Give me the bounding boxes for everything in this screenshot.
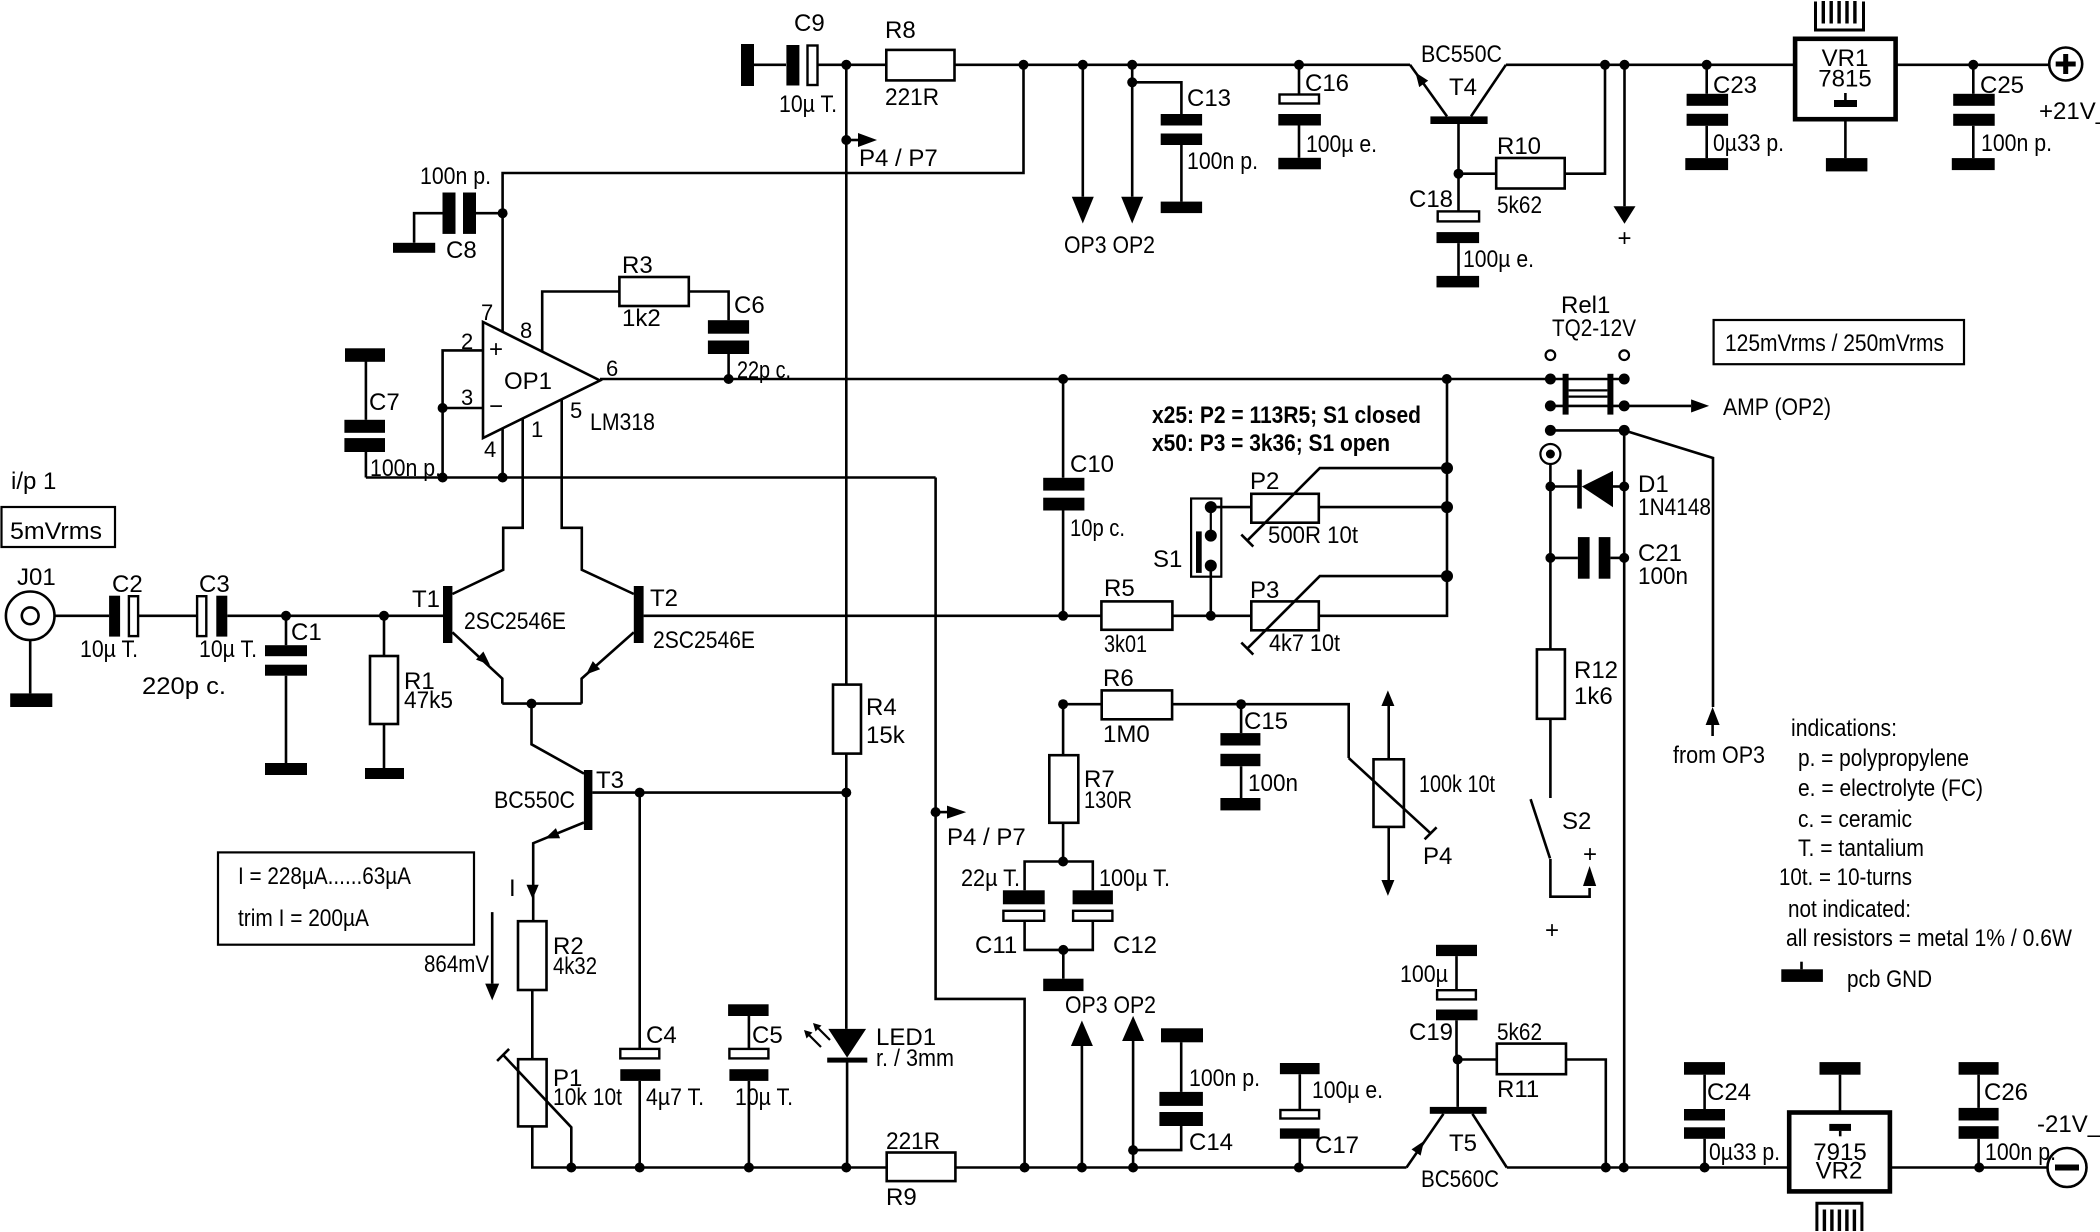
ground (pcb GND) under C8 bbox=[393, 243, 435, 253]
svg-text:T4: T4 bbox=[1449, 74, 1477, 101]
node: LED rail junction bbox=[841, 1163, 851, 1173]
node: C17 rail junction bbox=[1294, 1163, 1304, 1173]
svg-text:S2: S2 bbox=[1562, 808, 1591, 835]
wire: OP1 output line bbox=[600, 378, 1624, 381]
svg-text:+: + bbox=[1583, 841, 1597, 868]
svg-text:C19: C19 bbox=[1409, 1019, 1453, 1046]
svg-text:10p c.: 10p c. bbox=[1070, 515, 1125, 542]
svg-text:10µ T.: 10µ T. bbox=[735, 1084, 793, 1111]
svg-text:C1: C1 bbox=[291, 619, 322, 646]
svg-text:OP3 OP2: OP3 OP2 bbox=[1064, 232, 1155, 259]
svg-text:100n: 100n bbox=[1248, 770, 1298, 797]
svg-text:125mVrms / 250mVrms: 125mVrms / 250mVrms bbox=[1725, 330, 1944, 357]
svg-text:1M0: 1M0 bbox=[1103, 721, 1150, 748]
potentiometer P2 500R 10t bbox=[1211, 468, 1447, 549]
annotation indications legend bbox=[1779, 715, 2072, 952]
svg-text:864mV: 864mV bbox=[424, 951, 489, 978]
node: C9/R8 junction bbox=[841, 60, 851, 70]
terminal -21V_ bbox=[2037, 1111, 2100, 1187]
node: C24 rail junction bbox=[1700, 1163, 1710, 1173]
wire: C9 to R8 bbox=[818, 64, 887, 67]
node: rail junction OP3 arrow bbox=[1078, 60, 1088, 70]
ground (pcb GND) under C11/C12 bbox=[1043, 979, 1083, 991]
capacitor C23 0u33 p. bbox=[1687, 65, 1784, 158]
wire: relay coil row bbox=[1545, 425, 1713, 707]
svg-text:R10: R10 bbox=[1497, 133, 1541, 160]
svg-text:I: I bbox=[509, 875, 516, 902]
svg-text:+: + bbox=[1545, 917, 1559, 944]
node P4 / P7 (top) bbox=[841, 133, 937, 172]
annotation x25/x50 bbox=[1152, 402, 1421, 457]
wire: I current arrow bbox=[509, 875, 539, 902]
ground (pcb GND) under C16 bbox=[1278, 158, 1321, 170]
svg-text:+: + bbox=[489, 336, 503, 363]
terminal +21V_ bbox=[2039, 48, 2100, 126]
node: R1 junction bbox=[379, 611, 389, 621]
svg-text:100n p.: 100n p. bbox=[1189, 1065, 1260, 1092]
heatsink on VR2 bbox=[1817, 1203, 1862, 1231]
svg-text:P4 / P7: P4 / P7 bbox=[859, 145, 938, 172]
node: tail junction bbox=[527, 699, 537, 709]
ground (pcb GND) under C13 bbox=[1161, 202, 1202, 214]
svg-text:R3: R3 bbox=[622, 252, 653, 279]
svg-text:2SC2546E: 2SC2546E bbox=[464, 608, 566, 635]
node: rail junction for pin7 feed bbox=[1019, 60, 1029, 70]
resistor R2 4k32 bbox=[518, 921, 597, 990]
resistor R12 1k6 bbox=[1537, 649, 1618, 798]
node: pin2/3 junction bbox=[438, 403, 448, 413]
annotation box I = 228uA bbox=[218, 852, 474, 944]
svg-text:221R: 221R bbox=[885, 84, 939, 111]
svg-text:C18: C18 bbox=[1409, 186, 1453, 213]
svg-text:P4: P4 bbox=[1423, 843, 1452, 870]
svg-text:x25: P2 = 113R5; S1 closed: x25: P2 = 113R5; S1 closed bbox=[1152, 402, 1421, 429]
capacitor C7 100n p. bbox=[344, 361, 441, 482]
node: R11 rail junction bbox=[1601, 1163, 1611, 1173]
svg-text:R12: R12 bbox=[1574, 657, 1618, 684]
svg-text:R5: R5 bbox=[1104, 575, 1135, 602]
svg-text:C12: C12 bbox=[1113, 932, 1157, 959]
node: rail junction C23 bbox=[1702, 60, 1712, 70]
svg-text:1N4148: 1N4148 bbox=[1638, 494, 1711, 521]
wire: OP2 arrow (top) bbox=[1121, 65, 1143, 224]
ground (pcb GND) under J01 bbox=[10, 693, 52, 707]
svg-text:indications:: indications: bbox=[1791, 715, 1897, 742]
svg-text:22µ T.: 22µ T. bbox=[961, 865, 1020, 892]
capacitor C5 10u T. bbox=[728, 1004, 793, 1167]
wire: top rail T4 to VR1 bbox=[1506, 64, 1795, 67]
svg-text:C10: C10 bbox=[1070, 451, 1114, 478]
svg-text:AMP (OP2): AMP (OP2) bbox=[1723, 394, 1831, 421]
LED LED1 r./3mm bbox=[804, 1023, 954, 1168]
regulator VR1 7815 bbox=[1795, 39, 1896, 158]
resistor R8 221R bbox=[885, 17, 955, 111]
node OP3 OP2 labels (top) bbox=[1064, 232, 1155, 259]
svg-text:LM318: LM318 bbox=[590, 409, 655, 436]
node: C5 rail junction bbox=[744, 1163, 754, 1173]
svg-text:221R: 221R bbox=[886, 1128, 940, 1155]
svg-text:7815: 7815 bbox=[1818, 66, 1871, 93]
svg-text:6: 6 bbox=[606, 356, 618, 381]
ground (pcb GND) at C9 left bbox=[741, 44, 754, 86]
capacitor C9 10u T. bbox=[779, 10, 837, 118]
wire: pin 2 bbox=[443, 350, 483, 408]
svg-text:C26: C26 bbox=[1984, 1079, 2028, 1106]
svg-text:TQ2-12V: TQ2-12V bbox=[1552, 315, 1636, 342]
wire: top rail R8 to T4 bbox=[955, 64, 1411, 67]
transistor T3 BC550C bbox=[494, 767, 846, 921]
svg-text:5mVrms: 5mVrms bbox=[10, 518, 102, 545]
resistor R11 5k62 bbox=[1458, 1019, 1606, 1168]
node: neg riser rail junction bbox=[1020, 1163, 1030, 1173]
transistor T2 2SC2546E bbox=[562, 399, 755, 704]
svg-text:C2: C2 bbox=[112, 571, 143, 598]
svg-text:1k2: 1k2 bbox=[622, 305, 661, 332]
svg-text:R9: R9 bbox=[886, 1184, 917, 1211]
node: C21 right junction bbox=[1619, 553, 1629, 563]
svg-text:T2: T2 bbox=[650, 585, 678, 612]
capacitor C13 100n p. bbox=[1161, 85, 1258, 202]
svg-text:+: + bbox=[1617, 225, 1631, 252]
svg-text:C16: C16 bbox=[1305, 70, 1349, 97]
svg-text:C6: C6 bbox=[734, 292, 765, 319]
svg-text:from OP3: from OP3 bbox=[1673, 742, 1765, 769]
switch S2 bbox=[1531, 799, 1597, 944]
capacitor C3 10u T. bbox=[197, 571, 257, 663]
wire: OP3 arrow (bottom) bbox=[1071, 1021, 1093, 1173]
heatsink on VR1 bbox=[1816, 1, 1864, 30]
svg-text:J01: J01 bbox=[17, 564, 56, 591]
node: rail junction OP2 arrow bbox=[1127, 60, 1137, 70]
svg-text:I = 228µA......63µA: I = 228µA......63µA bbox=[238, 863, 411, 890]
svg-text:3k01: 3k01 bbox=[1104, 631, 1147, 658]
ground (pcb GND) under C25 bbox=[1952, 158, 1995, 170]
capacitor C10 10p c. bbox=[1043, 379, 1125, 616]
regulator VR2 7915 bbox=[1789, 1075, 1890, 1192]
ground (pcb GND) above C14 bbox=[1161, 1028, 1203, 1042]
wire: OP2 arrow (bottom) bbox=[1122, 1016, 1144, 1173]
svg-text:e. = electrolyte (FC): e. = electrolyte (FC) bbox=[1798, 775, 1983, 802]
svg-text:8: 8 bbox=[520, 318, 532, 343]
svg-text:5k62: 5k62 bbox=[1497, 1019, 1542, 1046]
wire: emitter tail bbox=[502, 702, 581, 705]
svg-text:p. = polypropylene: p. = polypropylene bbox=[1798, 745, 1969, 772]
svg-text:130R: 130R bbox=[1084, 787, 1132, 814]
svg-text:BC550C: BC550C bbox=[1421, 41, 1502, 68]
resistor R1 47k5 bbox=[370, 616, 453, 768]
svg-text:T5: T5 bbox=[1449, 1130, 1477, 1157]
node: C4 rail junction bbox=[635, 1163, 645, 1173]
node: V- rail junctions bbox=[438, 473, 508, 483]
wire: V- rail of OP1 bbox=[366, 476, 936, 479]
wire: R4 to LED1 bbox=[845, 793, 848, 1029]
wire: P1 to bottom rail bbox=[532, 1126, 886, 1167]
node: C11/C12 top junction bbox=[1058, 857, 1068, 867]
svg-text:C14: C14 bbox=[1189, 1129, 1233, 1156]
svg-text:100µ e.: 100µ e. bbox=[1463, 246, 1534, 273]
node: output line C10 junction bbox=[1058, 374, 1068, 384]
wire: bottom rail VR2 to -21V bbox=[1890, 1166, 2048, 1169]
node: C11/C12 bottom junction bbox=[1058, 945, 1068, 979]
svg-text:100n p.: 100n p. bbox=[420, 163, 491, 190]
svg-text:C24: C24 bbox=[1707, 1079, 1751, 1106]
resistor R7 130R bbox=[1049, 704, 1132, 861]
capacitor C14 100n p. bbox=[1128, 1042, 1260, 1156]
svg-text:P3: P3 bbox=[1250, 577, 1279, 604]
svg-text:0µ33 p.: 0µ33 p. bbox=[1713, 130, 1784, 157]
node: collection line junctions bbox=[1441, 374, 1453, 582]
svg-text:C5: C5 bbox=[752, 1022, 783, 1049]
capacitor C16 100u e. bbox=[1278, 65, 1377, 158]
wire: top rail VR1 to +21V bbox=[1896, 64, 2049, 67]
capacitor C24 0u33 p. bbox=[1684, 1062, 1780, 1167]
connector J01 bbox=[6, 564, 56, 693]
capacitor C21 100n bbox=[1545, 537, 1688, 590]
svg-text:100µ: 100µ bbox=[1400, 961, 1448, 988]
svg-text:C13: C13 bbox=[1187, 85, 1231, 112]
svg-text:R4: R4 bbox=[866, 694, 897, 721]
svg-text:C9: C9 bbox=[794, 10, 825, 37]
ground (pcb GND) under C1 bbox=[265, 763, 307, 775]
relay Rel1 TQ2-12V bbox=[1545, 292, 1636, 415]
transistor T1 2SC2546E bbox=[412, 419, 566, 704]
node: rail junction C16 bbox=[1294, 60, 1304, 70]
svg-text:−: − bbox=[489, 393, 503, 420]
svg-text:100µ e.: 100µ e. bbox=[1312, 1077, 1383, 1104]
svg-text:T. = tantalium: T. = tantalium bbox=[1798, 835, 1924, 862]
svg-text:47k5: 47k5 bbox=[404, 687, 453, 714]
svg-text:x50: P3 = 3k36; S1 open: x50: P3 = 3k36; S1 open bbox=[1152, 430, 1390, 457]
capacitor C6 22p c. bbox=[708, 292, 791, 384]
ground (pcb GND) under C18 bbox=[1437, 276, 1480, 288]
ground (pcb GND) under R1 bbox=[365, 768, 404, 779]
svg-text:R6: R6 bbox=[1103, 665, 1134, 692]
svg-text:T3: T3 bbox=[596, 767, 624, 794]
capacitor C8 100n p. bbox=[414, 163, 503, 264]
svg-text:220p c.: 220p c. bbox=[142, 673, 226, 700]
node: coil test point bbox=[1540, 444, 1560, 649]
svg-text:C23: C23 bbox=[1713, 72, 1757, 99]
ground (pcb GND) under VR1 bbox=[1826, 158, 1868, 171]
node: rail junction C25 bbox=[1968, 60, 1978, 70]
node P4 / P7 (middle) bbox=[931, 806, 1026, 851]
svg-text:P2: P2 bbox=[1250, 468, 1279, 495]
wire: T2 base line to R5 bbox=[644, 614, 1102, 617]
svg-text:BC560C: BC560C bbox=[1421, 1166, 1499, 1193]
svg-text:10µ T.: 10µ T. bbox=[779, 91, 837, 118]
svg-text:4k7 10t: 4k7 10t bbox=[1269, 630, 1340, 657]
transistor T4 BC550C bbox=[1410, 41, 1506, 174]
node: C8 junction bbox=[498, 208, 508, 218]
capacitor C26 100n p. bbox=[1959, 1062, 2056, 1167]
wire: C9 gnd to C9 bbox=[754, 64, 786, 67]
box 5mVrms bbox=[2, 507, 116, 547]
svg-text:3: 3 bbox=[461, 385, 473, 410]
svg-text:4µ7 T.: 4µ7 T. bbox=[646, 1084, 704, 1111]
node: D1 cathode junction bbox=[1619, 482, 1629, 492]
ground (pcb GND) above C7 bbox=[345, 348, 385, 362]
wire: AMP (OP2) arrow bbox=[1624, 394, 1831, 421]
svg-text:S1: S1 bbox=[1153, 546, 1182, 573]
svg-text:P4 / P7: P4 / P7 bbox=[947, 824, 1026, 851]
svg-text:r. / 3mm: r. / 3mm bbox=[876, 1045, 954, 1072]
ground (pcb GND) under C23 bbox=[1685, 158, 1728, 170]
svg-text:2SC2546E: 2SC2546E bbox=[653, 627, 755, 654]
resistor R3 1k2 bbox=[619, 252, 688, 332]
node: T3 base junctions bbox=[635, 788, 852, 798]
svg-text:1: 1 bbox=[531, 417, 543, 442]
node: rail junction + feed bbox=[1620, 60, 1630, 70]
svg-text:0µ33 p.: 0µ33 p. bbox=[1709, 1139, 1780, 1166]
svg-text:OP1: OP1 bbox=[504, 368, 552, 395]
wire: V- riser down to bottom rail bbox=[936, 478, 1025, 1168]
svg-text:100n p.: 100n p. bbox=[1981, 130, 2052, 157]
potentiometer P3 4k7 10t bbox=[1241, 379, 1447, 657]
node: C26 rail junction bbox=[1974, 1163, 1984, 1173]
svg-text:C4: C4 bbox=[646, 1022, 677, 1049]
capacitor C15 100n bbox=[1220, 699, 1298, 798]
wire: input line C3 to T1 bbox=[227, 614, 443, 617]
svg-text:100n: 100n bbox=[1638, 563, 1688, 590]
wire: bottom rail T5 to VR2 bbox=[1507, 1166, 1789, 1169]
svg-text:100k 10t: 100k 10t bbox=[1419, 771, 1495, 798]
node: R5/S1/P3 junction bbox=[1206, 611, 1216, 621]
potentiometer P4 100k 10t bbox=[1349, 690, 1496, 896]
svg-text:10µ T.: 10µ T. bbox=[80, 636, 138, 663]
capacitor C19 100u bbox=[1400, 945, 1478, 1060]
svg-text:C25: C25 bbox=[1980, 72, 2024, 99]
svg-text:4k32: 4k32 bbox=[553, 953, 597, 980]
wire: pin 3 bbox=[443, 407, 483, 410]
wire: R3 to C6 bbox=[689, 292, 729, 321]
box 125mVrms / 250mVrms bbox=[1714, 320, 1964, 364]
wire: coil negative riser to rail bbox=[1619, 430, 1629, 1172]
potentiometer P1 10k 10t bbox=[497, 1049, 622, 1168]
transistor T5 BC560C bbox=[1407, 1060, 1507, 1194]
node: T5 base junction bbox=[1453, 1055, 1463, 1065]
wire: C13 branch bbox=[1127, 77, 1181, 114]
node: P1 wiper junction bbox=[566, 1163, 576, 1173]
ground (pcb GND) above VR2 bbox=[1820, 1062, 1861, 1075]
wire: C2 to C3 bbox=[139, 614, 197, 617]
svg-text:all resistors = metal 1% / 0.6: all resistors = metal 1% / 0.6W bbox=[1786, 925, 2072, 952]
switch S1 bbox=[1153, 499, 1221, 616]
capacitor C2 10u T. bbox=[80, 571, 143, 663]
capacitor C18 100u e. bbox=[1409, 174, 1534, 276]
svg-text:500R 10t: 500R 10t bbox=[1268, 522, 1358, 549]
wire: pins to V- rail bbox=[441, 408, 444, 478]
wire: bottom rail R9 to T5 bbox=[955, 1166, 1406, 1169]
node OP3 OP2 labels (bottom) bbox=[1065, 992, 1156, 1019]
resistor R4 15k bbox=[833, 685, 906, 793]
resistor R10 5k62 bbox=[1459, 65, 1606, 219]
svg-text:C15: C15 bbox=[1244, 708, 1288, 735]
ground (pcb GND) legend symbol bbox=[1781, 962, 1932, 993]
label i/p 1 bbox=[11, 468, 56, 495]
svg-text:+21V_: +21V_ bbox=[2039, 98, 2100, 125]
node: C1 junction bbox=[281, 611, 291, 621]
wire: pin 8 to R3 bbox=[542, 292, 619, 352]
capacitor C12 100u T. bbox=[1063, 862, 1170, 960]
svg-text:C3: C3 bbox=[199, 571, 230, 598]
node: output/C6 junction bbox=[724, 374, 734, 384]
wire: OP3 arrow (top) bbox=[1072, 65, 1094, 224]
node: rail junction R10 bbox=[1600, 60, 1610, 70]
node: C10/R5 junction bbox=[1058, 611, 1068, 621]
resistor R9 221R bbox=[886, 1128, 955, 1211]
svg-text:pcb GND: pcb GND bbox=[1847, 966, 1932, 993]
op-amp OP1 LM318 bbox=[461, 300, 655, 462]
wire: 864mV arrow bbox=[424, 912, 499, 1000]
svg-text:10k 10t: 10k 10t bbox=[553, 1084, 622, 1111]
svg-text:not indicated:: not indicated: bbox=[1788, 896, 1911, 923]
svg-text:10t. = 10-turns: 10t. = 10-turns bbox=[1779, 864, 1912, 891]
node: T4 base junction bbox=[1454, 169, 1464, 179]
svg-text:R8: R8 bbox=[885, 17, 916, 44]
wire: J01 to C2 bbox=[55, 614, 110, 617]
svg-text:5k62: 5k62 bbox=[1497, 192, 1542, 219]
wire: tail to T3 collector bbox=[532, 704, 585, 774]
svg-text:OP3 OP2: OP3 OP2 bbox=[1065, 992, 1156, 1019]
svg-text:1k6: 1k6 bbox=[1574, 683, 1613, 710]
svg-text:i/p 1: i/p 1 bbox=[11, 468, 56, 495]
wire: bootstrap vertical from C9/R8 node down to R4 bbox=[845, 65, 848, 685]
svg-text:R11: R11 bbox=[1497, 1076, 1539, 1103]
capacitor C11 22u T. bbox=[961, 862, 1063, 960]
capacitor C17 100u e. bbox=[1280, 1063, 1383, 1168]
ground (pcb GND) under C15 bbox=[1220, 798, 1260, 810]
capacitor C1 220p c. bbox=[142, 616, 322, 763]
svg-text:-21V_: -21V_ bbox=[2037, 1111, 2100, 1138]
wire: + supply arrow down bbox=[1614, 65, 1636, 252]
svg-text:100µ e.: 100µ e. bbox=[1306, 131, 1377, 158]
svg-text:15k: 15k bbox=[866, 722, 906, 749]
svg-text:T1: T1 bbox=[412, 586, 440, 613]
resistor R5 3k01 bbox=[1101, 575, 1251, 658]
resistor R6 1M0 bbox=[1058, 665, 1349, 758]
svg-text:C17: C17 bbox=[1315, 1132, 1359, 1159]
svg-text:100µ T.: 100µ T. bbox=[1099, 865, 1170, 892]
svg-text:C7: C7 bbox=[369, 389, 400, 416]
svg-text:trim I = 200µA: trim I = 200µA bbox=[238, 905, 369, 932]
svg-text:c. = ceramic: c. = ceramic bbox=[1798, 806, 1912, 833]
svg-text:100n p.: 100n p. bbox=[1985, 1139, 2056, 1166]
svg-text:C11: C11 bbox=[975, 932, 1017, 959]
svg-text:10µ T.: 10µ T. bbox=[199, 636, 257, 663]
svg-text:100n p.: 100n p. bbox=[1187, 148, 1258, 175]
node from OP3 arrow bbox=[1673, 707, 1765, 769]
capacitor C4 4u7 T. bbox=[620, 793, 704, 1168]
wire: R2 to P1 bbox=[531, 990, 534, 1059]
diode D1 1N4148 bbox=[1545, 470, 1711, 521]
svg-text:4: 4 bbox=[484, 437, 496, 462]
capacitor C25 100n p. bbox=[1953, 65, 2052, 158]
svg-text:VR2: VR2 bbox=[1816, 1158, 1863, 1185]
svg-text:7: 7 bbox=[481, 300, 493, 325]
wire: pin 7 supply riser bbox=[503, 65, 1024, 332]
svg-text:5: 5 bbox=[570, 398, 582, 423]
svg-text:BC550C: BC550C bbox=[494, 787, 575, 814]
svg-text:C8: C8 bbox=[446, 237, 477, 264]
wire: pin 4 bbox=[501, 428, 504, 477]
